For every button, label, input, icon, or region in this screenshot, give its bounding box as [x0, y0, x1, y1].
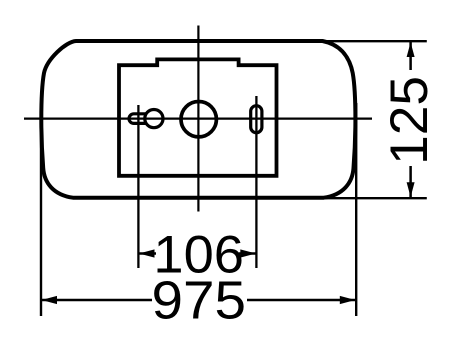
arrowhead 125 top	[407, 42, 415, 57]
arrowhead 975 left	[42, 296, 58, 304]
center hole	[181, 102, 216, 137]
extension line left of dim 106	[137, 105, 139, 268]
dimension line 975 left segment	[42, 299, 153, 302]
dimension line 975 right segment	[247, 299, 355, 302]
horizontal centerline	[24, 117, 372, 119]
extension line top of dim 125	[302, 40, 427, 42]
dimension line 125 upper segment	[409, 42, 412, 70]
dimension line 106 right stub	[239, 252, 256, 255]
arrowhead 975 right	[340, 296, 356, 304]
vertical centerline	[197, 26, 199, 212]
extension line right of dim 975	[355, 103, 357, 316]
extension line right of dim 106	[255, 96, 257, 268]
arrowhead 106 left	[139, 249, 155, 257]
extension line bottom of dim 125	[302, 197, 427, 199]
dimension line 106 left stub	[139, 252, 156, 255]
arrowhead 106 right	[240, 249, 256, 257]
extension line left of dim 975	[40, 112, 42, 316]
mounting plate	[119, 59, 277, 175]
arrowhead 125 bottom	[407, 182, 415, 197]
svg-text:975: 975	[152, 271, 247, 331]
body outline	[41, 41, 355, 198]
oval slot	[251, 106, 262, 133]
keyhole slot	[129, 110, 163, 128]
dimension line 125 lower segment	[409, 166, 412, 197]
svg-text:125: 125	[380, 76, 439, 165]
